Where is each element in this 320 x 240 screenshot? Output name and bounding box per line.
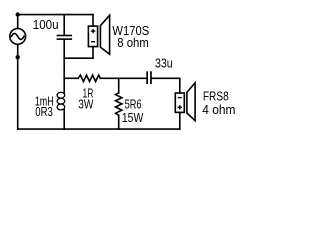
wire 33u cap to FRS8 drop <box>152 78 180 93</box>
speaker LS2 FRS8 box <box>175 93 184 112</box>
junction dot source top <box>16 12 20 16</box>
svg-text:8 ohm: 8 ohm <box>117 35 149 50</box>
capacitor C1 100u bottom plate <box>57 38 73 40</box>
speaker LS1 W170S box <box>88 26 97 46</box>
resistor R2 5R6 top lead <box>118 78 120 93</box>
svg-text:33u: 33u <box>155 56 173 71</box>
capacitor C1 100u top plate <box>57 35 73 37</box>
resistor R2 5R6 bottom lead <box>118 115 120 129</box>
speaker LS2 FRS8 cone trapezoid <box>187 83 195 121</box>
speaker LS1 W170S cone trapezoid <box>100 15 109 54</box>
resistor R1 1R zigzag <box>78 75 100 81</box>
resistor R2 5R6 zigzag <box>116 93 122 116</box>
wire bottom rail <box>18 128 180 130</box>
capacitor C2 33u right plate <box>150 71 152 84</box>
speaker LS1 polarity minus <box>91 41 95 43</box>
wire top horizontal <box>18 14 93 16</box>
svg-text:100u: 100u <box>33 17 59 32</box>
speaker LS2 polarity plus <box>178 105 182 109</box>
inductor L1 1mH coil loops <box>57 92 65 110</box>
svg-text:15W: 15W <box>122 110 144 125</box>
speaker LS1 polarity plus <box>91 29 95 33</box>
capacitor C2 33u left plate <box>146 71 148 84</box>
capacitor C1 lower lead down to coil <box>63 40 65 93</box>
svg-text:0R3: 0R3 <box>35 104 53 119</box>
wire inductor bottom lead to rail <box>63 110 65 130</box>
wire W170S return <box>64 47 93 59</box>
wire source bottom to bottom rail <box>17 57 19 129</box>
capacitor C1 100u branch top lead <box>63 15 65 35</box>
svg-text:3W: 3W <box>78 96 94 111</box>
wire middle horizontal left <box>64 77 78 79</box>
junction dot source bottom <box>16 55 20 59</box>
svg-text:4 ohm: 4 ohm <box>202 102 235 117</box>
speaker LS2 FRS8 bottom lead <box>179 112 181 129</box>
AC source V1 <box>17 15 19 29</box>
wire middle horizontal right <box>100 77 147 79</box>
wire W170S top drop <box>92 15 94 27</box>
speaker LS2 polarity minus <box>178 97 182 99</box>
